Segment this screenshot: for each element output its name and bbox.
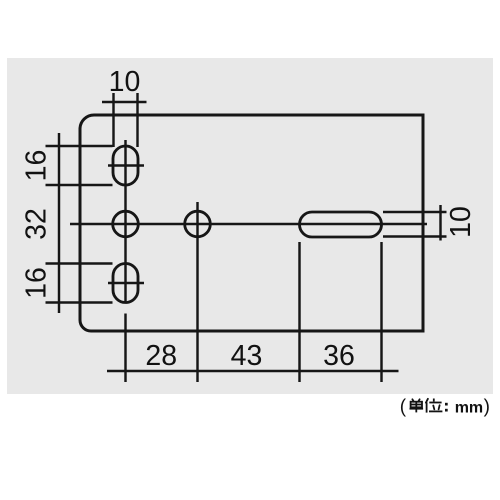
extension line right slot lower tangent [383,235,447,237]
svg-text:mm: mm [455,400,483,417]
unit note fullwidth colon [445,403,448,412]
dimension text 16 (upper left) [21,150,53,182]
round hole left (on 32 centerline) [113,211,139,237]
dimension text 32 (left) [21,208,53,240]
svg-text:16: 16 [21,150,53,182]
extension line bottom slot lower tangent [46,301,113,303]
dimension line 10 (top) [102,101,147,103]
extension line right slot left tangent [298,242,300,382]
dimension text 43 [231,340,263,372]
unit note closing paren [484,397,490,418]
svg-text:10: 10 [445,206,477,238]
gray drawing panel [7,58,493,394]
plate outline [80,115,423,331]
svg-text:32: 32 [21,208,53,240]
extension line top slot lower tangent [46,184,113,186]
bottom slot horizontal center line [108,282,144,284]
slotted hole bottom-left (10x16) [113,264,138,303]
left column vertical center line (lower dash) [124,314,126,383]
unit note opening paren [400,397,407,418]
main horizontal center line [70,223,427,225]
center hole vertical center line [196,202,198,382]
dimension text 36 [323,340,355,372]
dimension text 10 (top) [109,66,141,98]
unit note mm [455,400,483,417]
svg-text:43: 43 [231,340,263,372]
svg-text:): ) [484,397,490,418]
svg-text:28: 28 [145,340,177,372]
unit note kanji TAN [410,399,424,412]
dimension text 16 (lower left) [21,267,53,299]
dimension text 10 (right) [445,206,477,238]
right dimension line 10 [439,205,441,241]
extension line top slot upper tangent [46,145,113,147]
round hole center [185,211,211,237]
extension line top slot left tangent [112,93,114,147]
slotted hole top-left (10x16) [113,146,138,185]
svg-text:10: 10 [109,66,141,98]
bottom dimension line (28/43/36) [107,370,399,372]
left column vertical center line (upper part) [124,140,126,304]
extension line top slot right tangent [136,93,138,147]
unit note kanji I [426,399,443,413]
svg-text:36: 36 [323,340,355,372]
svg-text:(: ( [400,397,407,418]
slotted hole right (36x10) [300,212,382,237]
extension line right slot right tangent [380,242,382,382]
extension line right slot upper tangent [383,211,447,213]
extension line bottom slot upper tangent [46,262,113,264]
svg-text:16: 16 [21,267,53,299]
dimension text 28 [145,340,177,372]
top slot horizontal center line [108,164,144,166]
left dimension line (16/32/16) [58,133,60,313]
